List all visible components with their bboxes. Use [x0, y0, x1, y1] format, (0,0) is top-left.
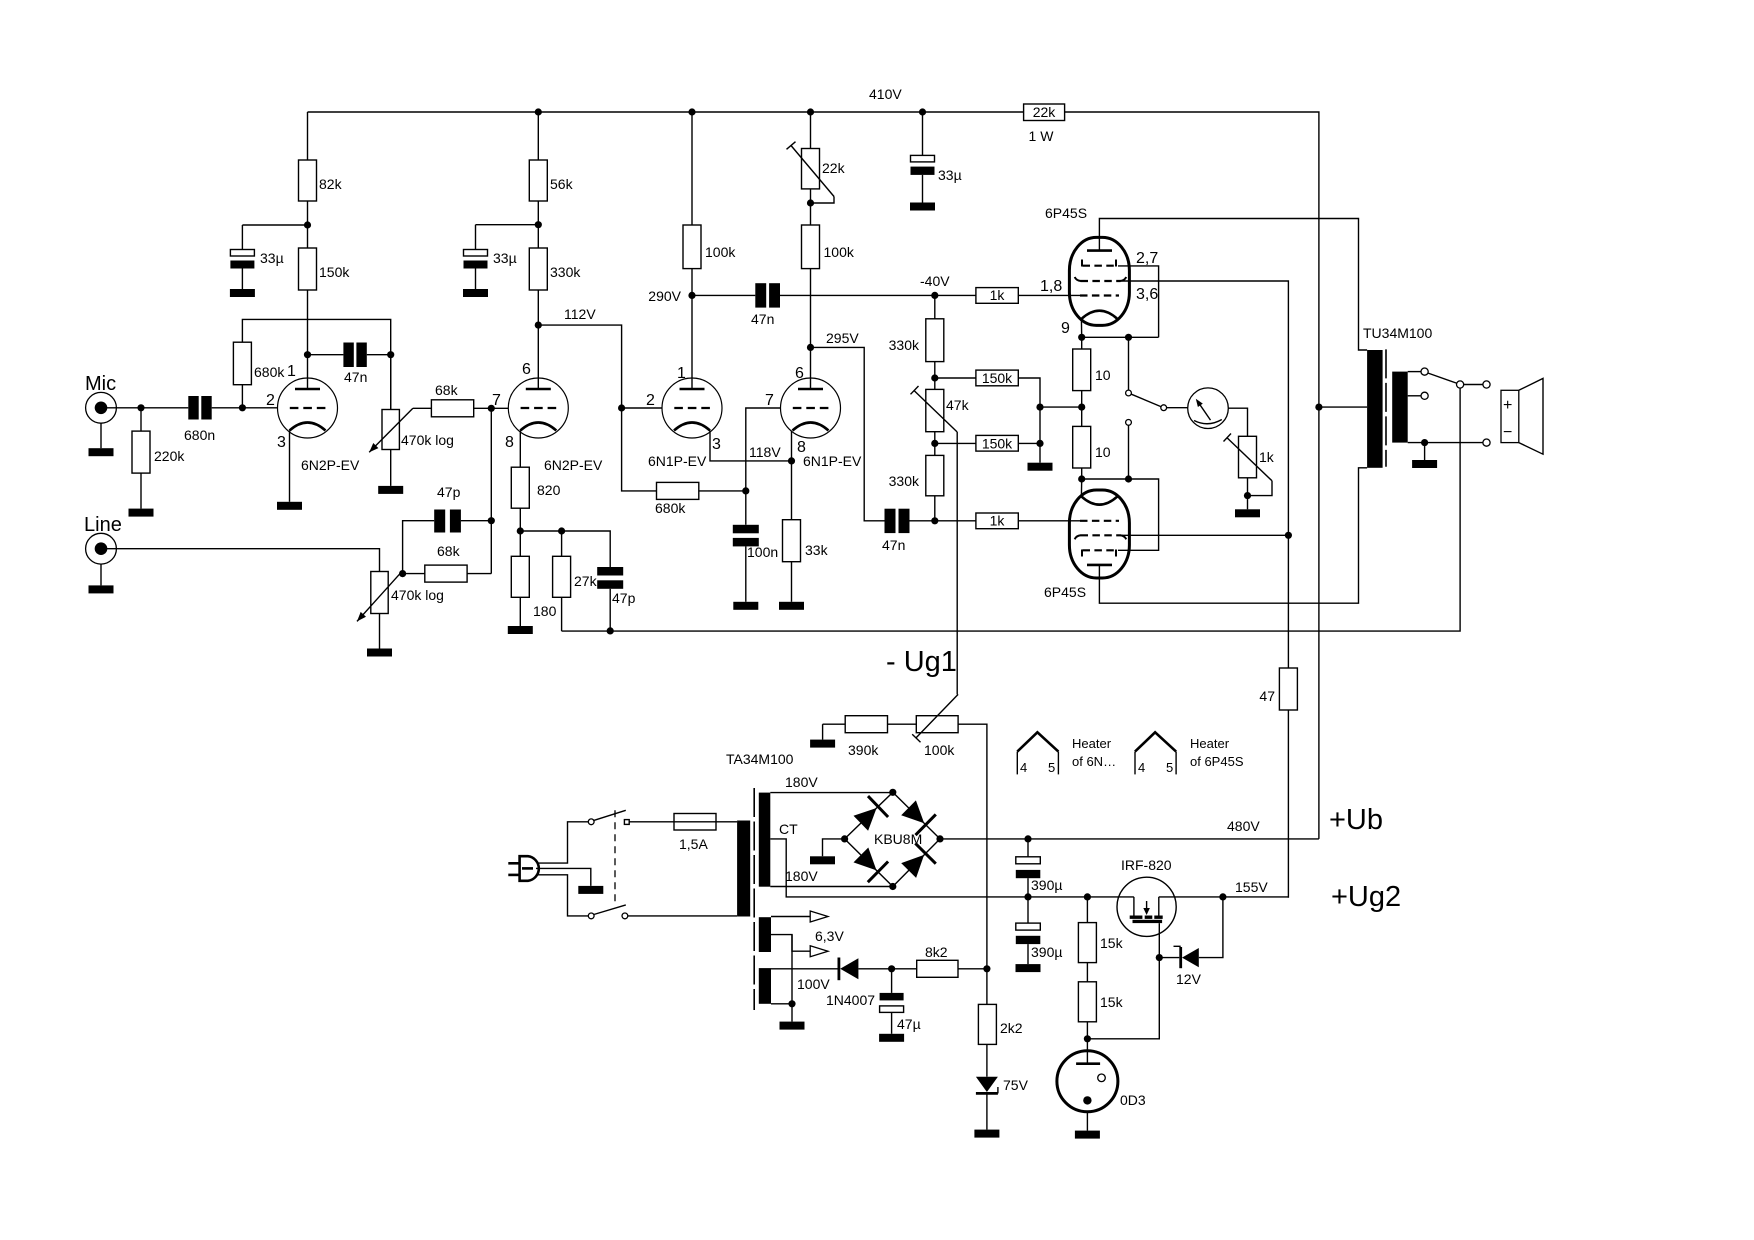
node bridge left [841, 835, 848, 842]
svg-text:+Ub: +Ub [1329, 804, 1383, 836]
svg-text:5: 5 [1048, 760, 1055, 775]
diode bridge D1 [854, 796, 889, 831]
svg-text:33µ: 33µ [938, 167, 962, 183]
node bridge right [936, 835, 943, 842]
svg-text:CT: CT [779, 821, 798, 837]
node 15k top [1084, 893, 1091, 900]
transistor IRF-820 [1117, 857, 1176, 936]
wire heater lead A [771, 916, 810, 918]
wire rail to 22k pot [810, 112, 812, 149]
ground 33k [779, 602, 804, 610]
node 47p grid V2 [488, 517, 495, 524]
resistor R 56k [529, 160, 573, 201]
capacitor 680n coupling [184, 396, 215, 443]
wire plug live [538, 822, 589, 863]
bridge KBU8M [845, 792, 940, 886]
node 1k wiper [1244, 492, 1251, 499]
capacitor 390u upper [1016, 839, 1063, 897]
speaker [1501, 378, 1543, 454]
node cathode divider left [517, 527, 524, 534]
wire 480V rail [940, 818, 1319, 839]
wire mic input row [104, 407, 188, 409]
resistor R 2k2 [978, 1004, 1022, 1044]
node divider lower [931, 440, 938, 447]
wire 82k to 150k [307, 201, 309, 248]
svg-text:10: 10 [1095, 444, 1111, 460]
wire plug neutral [538, 875, 589, 916]
svg-text:33µ: 33µ [260, 250, 284, 266]
ground mic jack [89, 448, 114, 456]
wire 680k to 100n node [699, 490, 746, 492]
svg-text:480V: 480V [1227, 818, 1260, 834]
arrow heater B [810, 946, 828, 957]
svg-text:220k: 220k [154, 448, 185, 464]
svg-text:112V: 112V [564, 306, 596, 322]
wire pot wiper to 68k [413, 407, 432, 409]
svg-text:1k: 1k [990, 287, 1006, 303]
node CT mid rail [1024, 893, 1031, 900]
resistor R 100k stage3 [683, 225, 736, 269]
node grid-leak top [387, 351, 394, 358]
wire anode column stage2 [537, 112, 539, 160]
svg-text:5: 5 [1166, 760, 1173, 775]
diode bridge D2 [901, 800, 936, 835]
wire 0D3 to ground [1086, 1112, 1088, 1131]
wire grid V4 [746, 408, 781, 525]
svg-text:2: 2 [266, 392, 275, 409]
svg-text:150k: 150k [982, 370, 1013, 386]
node cathode chain mid [1078, 404, 1085, 411]
resistor R 10 upper [1073, 337, 1111, 390]
resistor R 150k upper [976, 370, 1018, 386]
resistor R 82k [299, 160, 343, 201]
node Ub to CT [1315, 404, 1322, 411]
svg-text:68k: 68k [437, 543, 461, 559]
transformer TA34M100 [726, 751, 794, 1010]
ground 33u stage1 [230, 289, 255, 297]
svg-text:820: 820 [537, 482, 561, 498]
wire 100V winding bottom [771, 1003, 792, 1005]
wire plate upper to transformer [1099, 219, 1367, 351]
wire cathode node row [520, 531, 610, 567]
ground 150k [1028, 463, 1053, 471]
wire HV top 180V [770, 774, 893, 793]
wire 680n to grid V1 [212, 407, 278, 409]
svg-text:75V: 75V [1003, 1077, 1029, 1093]
resistor R 100k stage4 [802, 225, 855, 269]
node decoupling stage1 [304, 221, 311, 228]
node cathode upper [1078, 334, 1085, 341]
connector heater 6N [1017, 732, 1116, 775]
transformer TU34M100 secondary [1392, 372, 1408, 443]
svg-text:8k2: 8k2 [925, 944, 948, 960]
wire 68k to grid V2 [474, 407, 509, 409]
svg-text:155V: 155V [1235, 879, 1268, 895]
diode zener 12V [1174, 946, 1202, 987]
svg-text:390µ: 390µ [1031, 944, 1062, 960]
resistor R 68k mic [431, 382, 473, 417]
resistor R 68k line [425, 543, 467, 582]
svg-text:68k: 68k [435, 382, 459, 398]
svg-text:9: 9 [1061, 320, 1070, 337]
node bias filter [888, 965, 895, 972]
wire midpoint to cathode chain [1040, 406, 1082, 408]
svg-text:2,7: 2,7 [1136, 250, 1158, 267]
switch mains lower pole [588, 905, 628, 919]
transformer TU34M100 primary [1363, 325, 1432, 468]
wire anode column stage3 [691, 112, 693, 225]
svg-text:290V: 290V [648, 288, 681, 304]
resistor R 150k [299, 248, 351, 290]
ground 220k [129, 509, 154, 517]
resistor R 33k [783, 520, 829, 562]
node rail 33u [919, 108, 926, 115]
tube V6 6P45S lower [1044, 490, 1129, 600]
switch link dashed [614, 810, 616, 905]
wire to 150k upper [935, 377, 976, 379]
wire 1k to grid lower 6P45S [1018, 520, 1080, 522]
svg-text:0D3: 0D3 [1120, 1092, 1146, 1108]
svg-text:Heater: Heater [1190, 736, 1230, 751]
wire 112V to grid V3 [538, 325, 662, 408]
svg-text:8: 8 [505, 434, 514, 451]
svg-text:330k: 330k [550, 264, 581, 280]
ground line jack [89, 585, 114, 593]
tube V2 6N2P-EV triode b [492, 361, 603, 473]
node mic 220k [137, 404, 144, 411]
wire to 150k lower [935, 442, 976, 444]
wire diode to 8k2 [858, 968, 916, 970]
tube V5 6P45S upper [1040, 205, 1158, 337]
meter mA [1167, 388, 1229, 429]
wire HV CT [770, 821, 1134, 897]
wire 100k right to -Ug1 column [958, 724, 987, 1004]
resistor R 330k stage2 [529, 248, 581, 290]
ground secondary [1412, 460, 1437, 468]
svg-text:10: 10 [1095, 367, 1111, 383]
node divider upper [931, 374, 938, 381]
svg-text:150k: 150k [319, 264, 350, 280]
svg-text:47n: 47n [882, 537, 905, 553]
wire pot mic to ground [390, 450, 392, 486]
wire 390k left [823, 723, 846, 725]
wire -40V to 330k [934, 295, 936, 318]
node -40V [920, 273, 950, 299]
svg-text:56k: 56k [550, 176, 574, 192]
wire 820 to 180 [519, 508, 521, 556]
resistor R 220k [132, 431, 185, 473]
wire wiper to 68k line [403, 573, 425, 575]
svg-text:15k: 15k [1100, 994, 1124, 1010]
node 112V anode V2 [535, 306, 597, 329]
node meter tap upper [1125, 334, 1132, 341]
svg-text:1: 1 [287, 363, 296, 380]
potentiometer 47k balance [911, 386, 970, 432]
wire 47 to Ug2 rail [1287, 710, 1289, 898]
svg-text:15k: 15k [1100, 935, 1124, 951]
switch meter select upper contact [1126, 337, 1132, 396]
ground 180 [508, 626, 533, 634]
wire line input row [104, 549, 380, 572]
node bridge top [889, 789, 896, 796]
wire divider to gate [1087, 923, 1159, 1039]
node gate divider [1084, 1035, 1091, 1042]
node grid V3 [618, 404, 625, 411]
resistor R 680k grid leak [233, 342, 285, 385]
wire cathode row upper [1082, 336, 1159, 338]
resistor R 15k lower [1078, 982, 1123, 1022]
svg-text:47n: 47n [751, 311, 774, 327]
wire zener leads [1159, 957, 1179, 959]
wire heater lead B [771, 935, 810, 952]
wire 10 lower to cathode row lower [1081, 468, 1083, 479]
switch meter select lower contact [1126, 420, 1132, 480]
svg-text:1N4007: 1N4007 [826, 992, 875, 1008]
svg-text:6N1P-EV: 6N1P-EV [803, 453, 862, 469]
node cathode divider right [558, 527, 565, 534]
plug mains [508, 856, 539, 881]
wire screen upper to 47R column [1122, 281, 1289, 668]
capacitor 47p feedback input [434, 484, 461, 533]
svg-text:TU34M100: TU34M100 [1363, 325, 1432, 341]
svg-text:180V: 180V [785, 868, 818, 884]
ground 0D3 [1075, 1131, 1100, 1139]
wire 100n to ground [745, 546, 747, 601]
svg-text:680n: 680n [184, 427, 215, 443]
wire 150k lower to ground column [1018, 442, 1040, 444]
resistor R 15k upper [1078, 897, 1123, 963]
svg-text:6N1P-EV: 6N1P-EV [648, 453, 707, 469]
wire cathode upper lead [1080, 319, 1082, 337]
terminal secondary top [1421, 368, 1428, 375]
jack Mic input [85, 373, 116, 423]
svg-text:22k: 22k [1033, 104, 1057, 120]
node 22k wiper [807, 199, 814, 206]
wire 295V to 47n lower [811, 347, 885, 520]
svg-text:Line: Line [84, 514, 122, 536]
node grid V1 [239, 404, 246, 411]
node cathode lower [1078, 475, 1085, 482]
node decoupling stage2 [535, 221, 542, 228]
svg-text:47p: 47p [437, 484, 461, 500]
wire secondary mid tap [1408, 395, 1422, 397]
svg-text:118V: 118V [749, 444, 781, 460]
wire 56k to 330k [537, 201, 539, 248]
svg-text:330k: 330k [889, 337, 920, 353]
svg-text:6: 6 [795, 365, 804, 382]
fuse 1,5A [674, 814, 716, 853]
diode bridge D3 [854, 848, 889, 883]
node -Ug1 takeoff [983, 965, 990, 972]
capacitor 47u bias [879, 969, 921, 1042]
wire selector to output [1464, 384, 1484, 386]
wire 220k to ground [140, 473, 142, 509]
wire 100k to anode V3 [691, 269, 693, 390]
svg-text:180: 180 [533, 603, 557, 619]
node 118V cathodes [749, 444, 795, 465]
ground 390k [810, 724, 835, 747]
wire 155V rail [1159, 879, 1289, 897]
svg-text:6P45S: 6P45S [1044, 584, 1086, 600]
svg-text:390k: 390k [848, 742, 879, 758]
wire 290V to 47n [692, 294, 755, 296]
svg-text:330k: 330k [889, 473, 920, 489]
wire 47k wiper -Ug1 lead [956, 432, 958, 694]
resistor R 390k [845, 716, 887, 758]
wire line jack ground [100, 564, 102, 585]
potentiometer 22k anode [787, 142, 846, 203]
resistor R 1k grid upper [976, 287, 1018, 303]
svg-text:of 6P45S: of 6P45S [1190, 754, 1244, 769]
wire 68k line to grid V2 leg [467, 573, 491, 575]
svg-text:6P45S: 6P45S [1045, 205, 1087, 221]
capacitor 33u rail [911, 112, 962, 203]
wire 150k upper elbow [1018, 378, 1040, 407]
svg-text:1k: 1k [1259, 449, 1275, 465]
wire secondary ground stem [1424, 443, 1426, 460]
wire secondary bottom tap [1408, 442, 1483, 444]
wire to 33u stage1 [242, 224, 307, 226]
wire 15k to 0D3 [1086, 1022, 1088, 1064]
svg-text:−: − [1503, 424, 1512, 441]
node secondary ground [1421, 439, 1428, 446]
wire anode to 47n [308, 354, 344, 356]
node rail stage3 [688, 108, 695, 115]
wire grid V2 lead [490, 408, 492, 573]
svg-text:295V: 295V [826, 330, 859, 346]
svg-text:33µ: 33µ [493, 250, 517, 266]
wire mic jack ground [100, 423, 102, 448]
potentiometer 470k log mic [369, 355, 454, 453]
wire screen lower to 47R column [1122, 534, 1289, 536]
svg-text:410V: 410V [869, 86, 902, 102]
svg-text:22k: 22k [822, 160, 846, 176]
jack Line input [84, 514, 122, 564]
wire 47k to 330k lower [934, 432, 936, 456]
ground cathode V1 [277, 502, 302, 510]
potentiometer 1k meter shunt [1224, 434, 1275, 496]
wire zener to ground [986, 1093, 988, 1129]
wire anode column stage1 [307, 112, 309, 160]
node zener gate [1156, 954, 1163, 961]
svg-text:4: 4 [1020, 760, 1027, 775]
svg-text:6,3V: 6,3V [815, 928, 844, 944]
ground zener 75V [974, 1130, 999, 1138]
switch output tap lever [1428, 373, 1457, 383]
wire meter to 1k pot [1228, 408, 1247, 436]
capacitor 100n [733, 525, 778, 560]
wire cathode lower lead [1080, 479, 1082, 496]
ground pot mic [378, 486, 403, 494]
svg-text:47µ: 47µ [897, 1016, 921, 1032]
wire switch to primary bottom [628, 915, 737, 917]
svg-text:150k: 150k [982, 435, 1013, 451]
wire 180 to ground [519, 597, 521, 626]
node feedback midpoint [1036, 404, 1043, 411]
node 480V to 390u [1024, 835, 1031, 842]
svg-text:1: 1 [677, 365, 686, 382]
wire 330k to anode V2 [537, 290, 539, 390]
node rail stage4 [807, 108, 814, 115]
diode zener 75V [976, 1077, 1029, 1094]
svg-text:1k: 1k [990, 513, 1006, 529]
svg-text:3: 3 [712, 436, 721, 453]
svg-text:100k: 100k [824, 244, 855, 260]
node splitter grid return [742, 487, 749, 494]
svg-text:47: 47 [1259, 688, 1275, 704]
wire plug earth [536, 868, 591, 886]
node 290V [648, 288, 695, 304]
resistor R 10 lower [1073, 426, 1111, 468]
svg-text:6N2P-EV: 6N2P-EV [544, 457, 603, 473]
wire 330k lower to grid node [934, 496, 936, 521]
svg-text:+Ug2: +Ug2 [1331, 881, 1401, 913]
tube V3 6N1P-EV a [646, 365, 722, 469]
node line pot wiper [399, 570, 406, 577]
node meter tap lower [1125, 475, 1132, 482]
wire grid-leak loop [242, 319, 390, 409]
wire to 33u stage2 [476, 224, 539, 226]
resistor R 150k lower [976, 435, 1018, 451]
wire 330k to 47k [934, 362, 936, 390]
wire 15k join [1086, 963, 1088, 982]
wire 27k to feedback rail [561, 597, 563, 631]
resistor R 1k grid lower [976, 513, 1018, 529]
wire 47p right leg [461, 520, 491, 522]
tube V1 6N2P-EV triode a [266, 363, 360, 473]
wire plate lower to transformer [1099, 468, 1367, 603]
svg-text:12V: 12V [1176, 971, 1202, 987]
arrow heater A [810, 911, 828, 922]
ground 33u rail [910, 203, 935, 211]
ground winding return [780, 1022, 805, 1030]
svg-text:6: 6 [522, 361, 531, 378]
svg-text:IRF-820: IRF-820 [1121, 857, 1172, 873]
wire pot line to ground [379, 614, 381, 649]
switch meter lever [1131, 394, 1166, 410]
wire HV bottom 180V [770, 868, 893, 887]
resistor R 180 [511, 556, 556, 619]
resistor R 820 [511, 467, 560, 508]
svg-text:TA34M100: TA34M100 [726, 751, 794, 767]
wire 150k to anode tube V1 [307, 290, 309, 390]
wire 2k2 to zener [986, 1044, 988, 1076]
wire 100k to anode V4 [810, 269, 812, 390]
wire cathode V2 to 820 [519, 431, 521, 468]
wire feedback rail [562, 385, 1461, 632]
svg-text:3,6: 3,6 [1136, 286, 1158, 303]
wire CT primary [1319, 406, 1367, 408]
svg-text:Mic: Mic [85, 373, 116, 395]
wire 47p left leg [403, 521, 435, 574]
svg-text:470k log: 470k log [391, 587, 444, 603]
diode bridge D4 [901, 843, 936, 878]
wire 22k to 100k [810, 189, 812, 225]
capacitor 47p cathode [597, 567, 635, 606]
switch mains upper pole [588, 810, 629, 824]
resistor R 8k2 [917, 944, 958, 977]
resistor R 27k [553, 556, 598, 597]
node rail stage2 [535, 108, 542, 115]
wire 100V to diode [771, 969, 838, 992]
capacitor 47n coupling upper [751, 283, 780, 327]
wire cathode V3 to V4 [710, 431, 792, 461]
svg-text:47p: 47p [612, 590, 636, 606]
node anode V1 / 47n [304, 351, 311, 358]
wire cathode row lower [1082, 479, 1159, 550]
svg-text:33k: 33k [805, 542, 829, 558]
node winding return [788, 1000, 795, 1007]
